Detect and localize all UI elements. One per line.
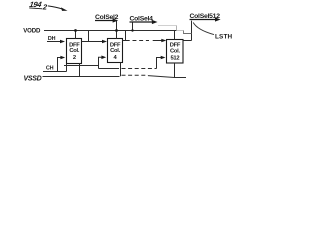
svg-text:VSSD: VSSD	[24, 76, 42, 83]
svg-text:ColSel4: ColSel4	[130, 15, 154, 22]
svg-text:2: 2	[42, 2, 49, 11]
svg-text:Col.: Col.	[170, 48, 180, 54]
svg-text:512: 512	[171, 55, 180, 61]
svg-text:VODD: VODD	[23, 27, 41, 34]
svg-text:LSTH: LSTH	[215, 33, 233, 40]
svg-text:194: 194	[29, 0, 43, 9]
svg-text:CH: CH	[46, 66, 54, 72]
svg-text:Col.: Col.	[69, 48, 79, 54]
svg-text:2: 2	[73, 55, 76, 61]
svg-text:Col.: Col.	[110, 48, 120, 54]
